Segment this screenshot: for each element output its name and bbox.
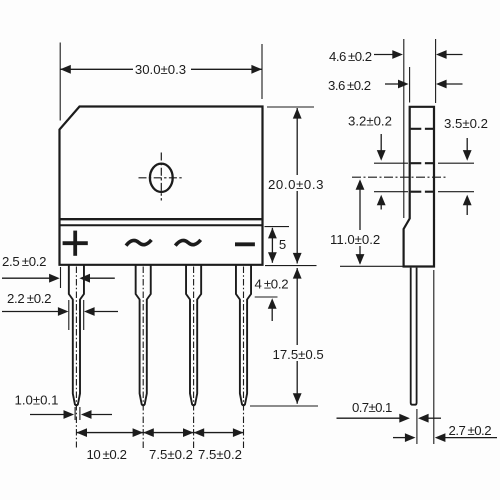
pin 3 outline xyxy=(186,266,201,406)
dim 3.6 arrows xyxy=(385,83,399,85)
dim 2.2 extension lines xyxy=(68,300,70,330)
side view hidden dash rows xyxy=(411,129,434,192)
pin 1 outline xyxy=(69,266,84,406)
side view lead xyxy=(411,268,417,405)
pin 2 outline xyxy=(136,266,151,406)
text label backgrounds xyxy=(269,175,323,191)
dim 4 arrow xyxy=(271,305,273,321)
dim 5 extension top xyxy=(265,226,290,228)
dim 30.0 arrowheads xyxy=(60,65,71,74)
shared extension line at case bottom xyxy=(265,265,317,267)
pin 4 outline xyxy=(236,266,251,406)
dim 2.2 leader right xyxy=(94,311,118,313)
mounting hole circle xyxy=(150,164,173,192)
minus terminal symbol xyxy=(235,242,255,246)
dim 2.5 leader left xyxy=(2,277,50,279)
dim 1.0 leader right xyxy=(91,414,112,416)
dim 3.6 extension front xyxy=(409,67,411,103)
svg-text:7.5±0.2: 7.5±0.2 xyxy=(149,447,193,462)
dim 2.2 leader left xyxy=(2,311,59,313)
ac terminal symbol 1 xyxy=(126,240,151,246)
svg-text:7.5±0.2: 7.5±0.2 xyxy=(198,447,242,462)
hole crosshair horizontal xyxy=(139,177,183,179)
pin 4 centerline xyxy=(243,267,245,450)
svg-text:11.0±0.2: 11.0±0.2 xyxy=(330,232,380,247)
front view body outline xyxy=(60,107,263,265)
dim 4 extension line xyxy=(255,296,278,298)
body double line upper xyxy=(60,218,263,220)
svg-text:30.0±0.3: 30.0±0.3 xyxy=(135,62,186,77)
svg-text:3.5±0.2: 3.5±0.2 xyxy=(444,116,488,131)
svg-text:0.7±0.1: 0.7±0.1 xyxy=(352,400,392,415)
dim 4.6 extension front xyxy=(403,39,405,218)
pin 3 centerline xyxy=(193,267,195,450)
dim 20.0 extension top xyxy=(267,106,314,108)
dim 30.0 dimension line xyxy=(60,68,133,70)
pin 2 centerline xyxy=(142,267,144,450)
svg-text:5: 5 xyxy=(279,237,286,252)
ac terminal symbol 2 xyxy=(175,240,200,246)
dim 30.0 extension line left xyxy=(59,43,61,121)
dim 1.0 leader left xyxy=(30,414,64,416)
dim 11.0 extension bottom xyxy=(340,265,403,267)
side view hole centerline xyxy=(352,176,448,178)
svg-text:10 ±0.2: 10 ±0.2 xyxy=(86,447,126,462)
svg-text:2.7 ±0.2: 2.7 ±0.2 xyxy=(449,423,492,438)
svg-text:17.5±0.5: 17.5±0.5 xyxy=(273,347,324,362)
side view body outline xyxy=(404,107,434,267)
dim 20.0 dimension line xyxy=(296,108,298,264)
pin 1 centerline xyxy=(75,267,77,448)
svg-text:3.6 ±0.2: 3.6 ±0.2 xyxy=(328,78,371,93)
svg-text:2.2 ±0.2: 2.2 ±0.2 xyxy=(7,291,51,306)
dim 17.5 extension bottom xyxy=(250,405,318,407)
body double line lower xyxy=(60,224,263,226)
svg-text:2.5 ±0.2: 2.5 ±0.2 xyxy=(2,254,46,269)
dim 5 dimension line xyxy=(271,228,273,263)
lead back extension line xyxy=(416,409,418,444)
plus terminal symbol xyxy=(63,231,88,256)
svg-text:20.0±0.3: 20.0±0.3 xyxy=(268,177,324,192)
dim 3.5 arrows xyxy=(466,138,468,151)
svg-text:4.6 ±0.2: 4.6 ±0.2 xyxy=(329,49,372,64)
dim 30.0 extension line right xyxy=(261,44,263,99)
dim 3.2/3.5 extension rows xyxy=(374,162,408,164)
back face extension line xyxy=(433,270,435,444)
dim 0.7 arrows xyxy=(337,417,401,419)
dim 3.2 arrows xyxy=(380,134,382,151)
dim 1.0 tick lines xyxy=(74,407,76,420)
svg-text:4 ±0.2: 4 ±0.2 xyxy=(255,277,289,292)
dim 4.6/3.6 extension back xyxy=(435,39,437,103)
hole crosshair vertical xyxy=(160,153,162,201)
dim 2.7 arrows xyxy=(393,437,406,439)
dim 2.5 extension line xyxy=(60,267,62,288)
dim 11.0 dimension line xyxy=(359,181,361,264)
dim 17.5 dimension line xyxy=(296,268,298,404)
svg-text:1.0±0.1: 1.0±0.1 xyxy=(15,393,59,408)
dim 4.6 arrows xyxy=(374,54,393,56)
pitch dimension line xyxy=(76,432,243,434)
dim 2.5 leader right xyxy=(89,277,114,279)
svg-text:3.2±0.2: 3.2±0.2 xyxy=(348,114,392,129)
